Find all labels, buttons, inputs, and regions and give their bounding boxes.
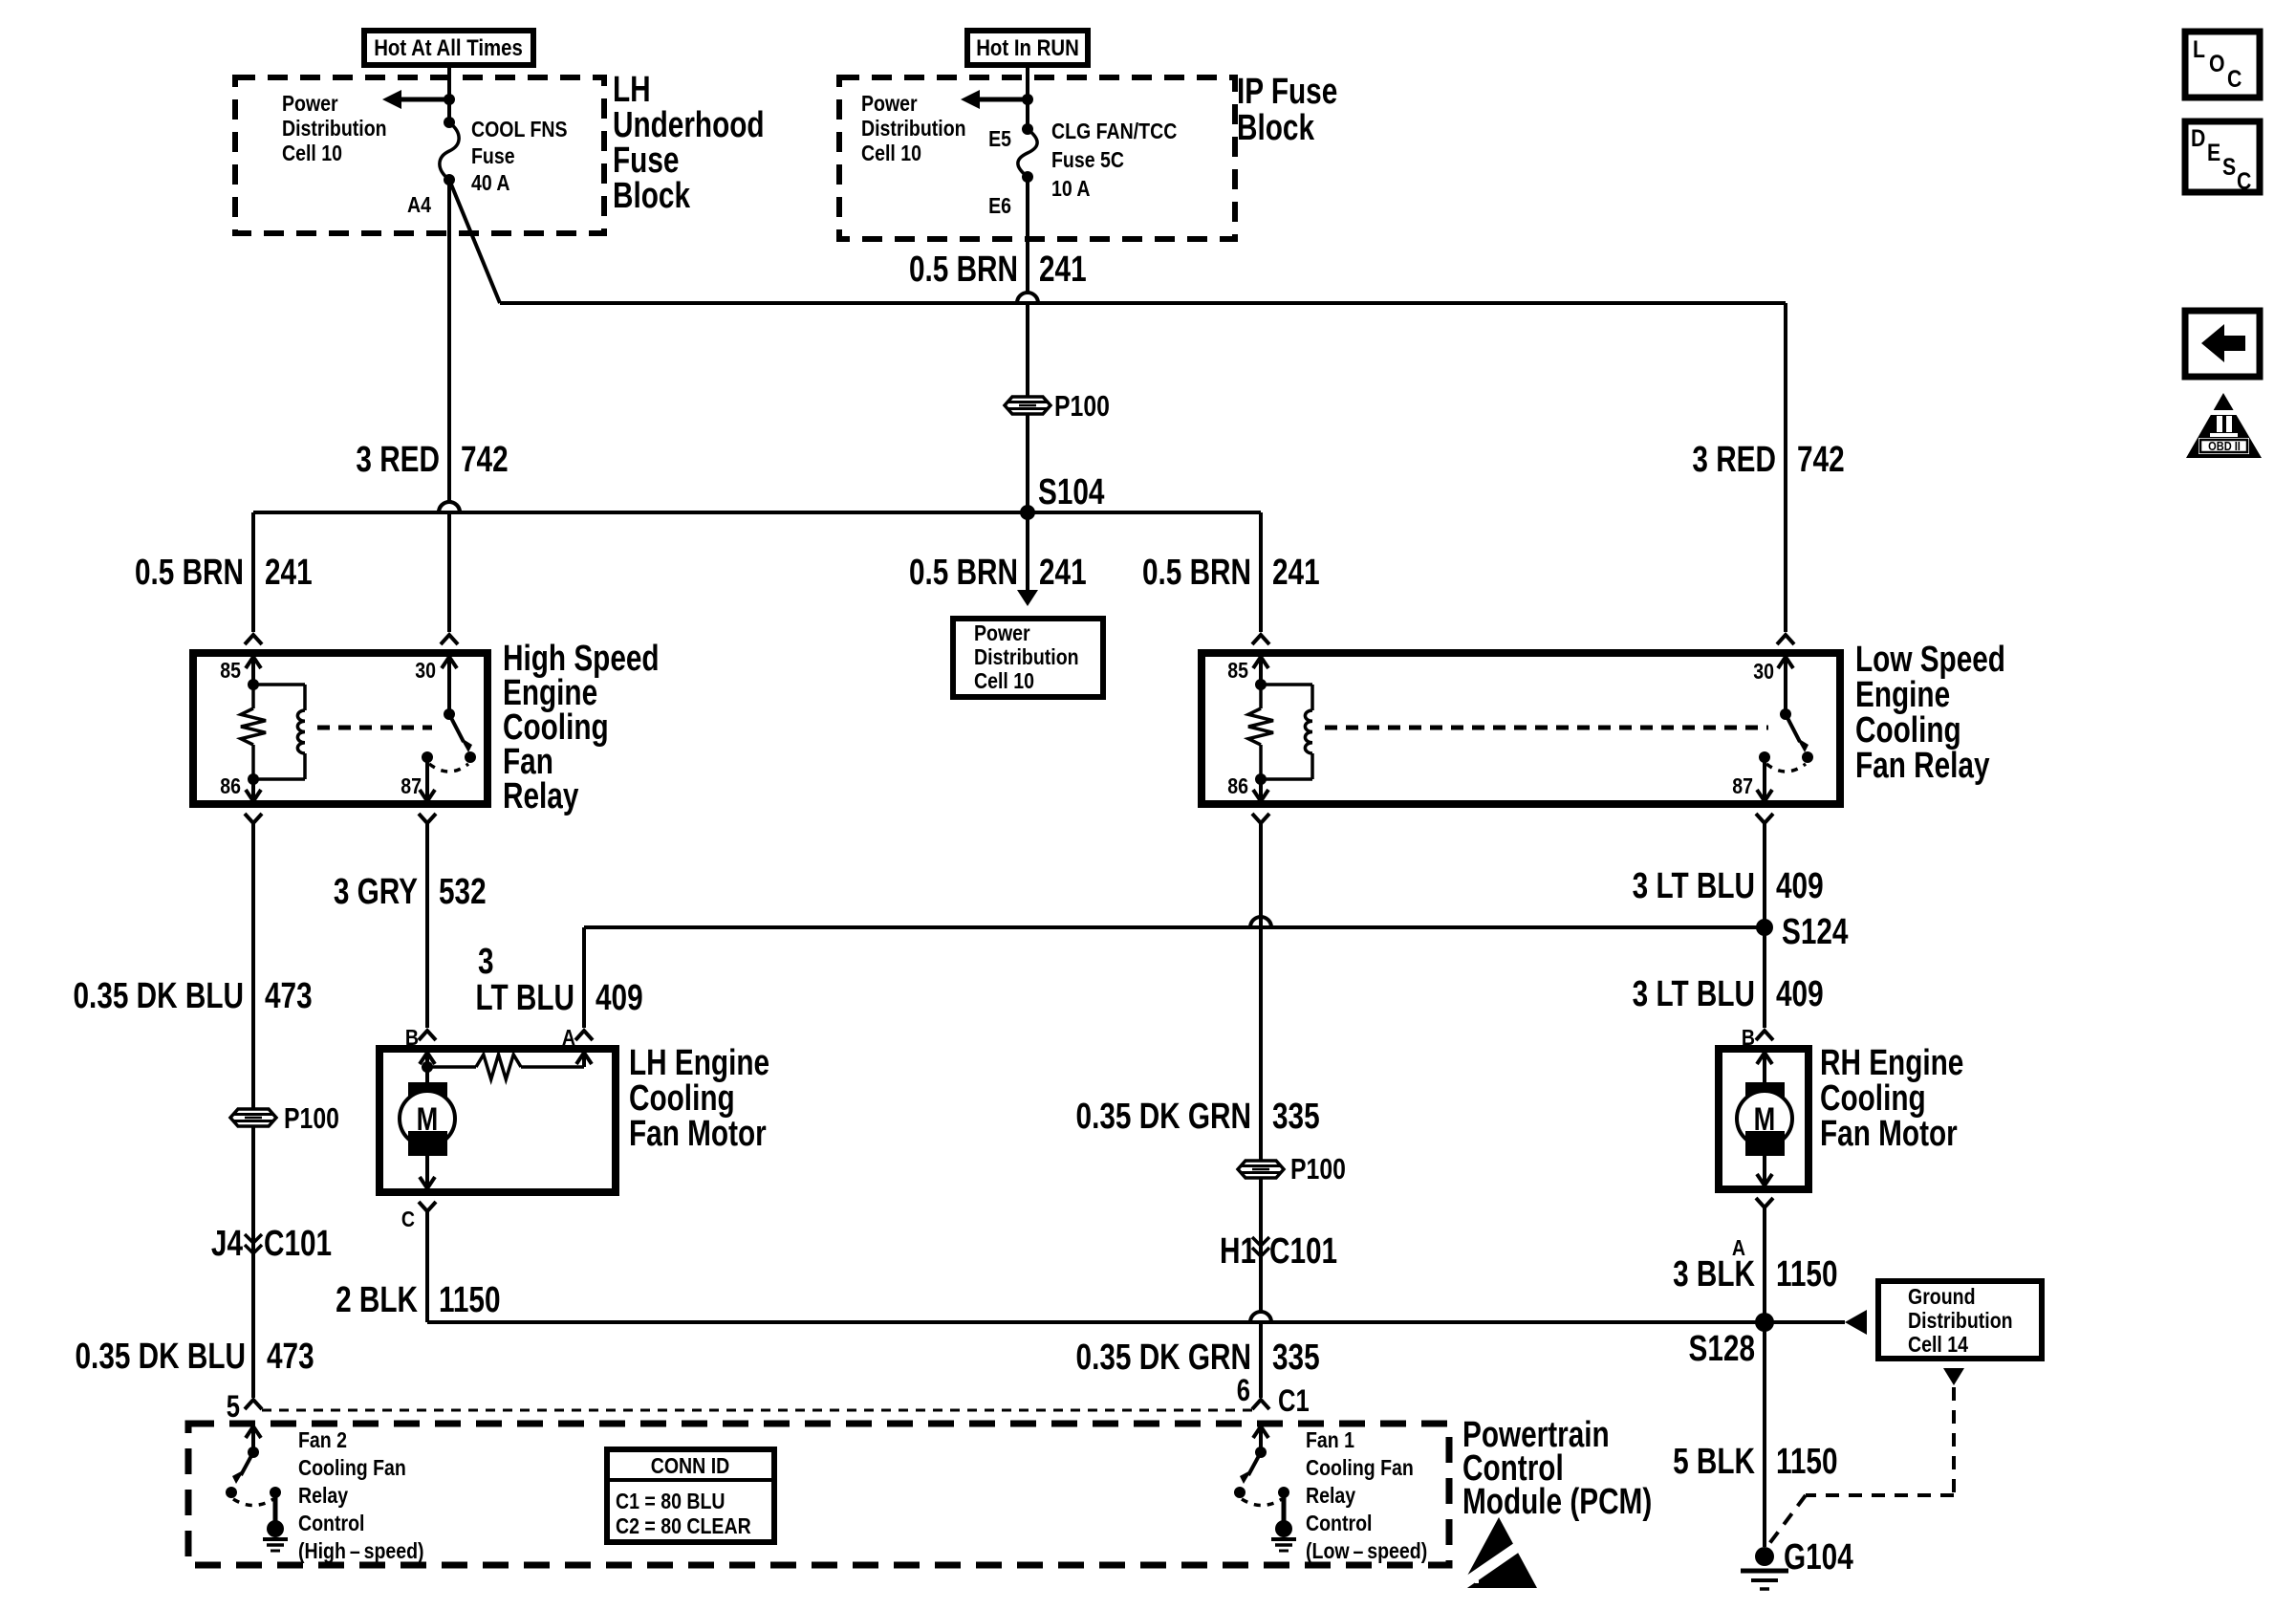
table: CONN ID (607, 1449, 774, 1542)
svg-text:Cooling: Cooling (1820, 1078, 1926, 1119)
svg-text:LT BLU: LT BLU (475, 978, 574, 1018)
HS relay switch pivot (444, 708, 455, 720)
svg-text:(Low – speed): (Low – speed) (1306, 1539, 1427, 1564)
LH underhood fuse block dashed outline (235, 77, 604, 233)
HS relay switch travel dashed arc (429, 764, 468, 772)
svg-text:C1 = 80 BLU: C1 = 80 BLU (616, 1490, 726, 1514)
LS relay pin 30 arrowhead (1778, 657, 1793, 668)
svg-text:30: 30 (415, 659, 436, 684)
svg-text:Cell 10: Cell 10 (974, 669, 1034, 694)
connector Y below HS relay pin 86 (245, 814, 262, 823)
svg-text:C: C (2237, 167, 2252, 194)
inline connector P100 (0.35 DK BLU) (230, 1109, 276, 1126)
wire: Hot In RUN feed down into IP fuse block (1026, 65, 1029, 129)
svg-text:10 A: 10 A (1051, 177, 1091, 202)
svg-text:Power: Power (974, 621, 1030, 646)
icon: OBD II triangle (2186, 393, 2262, 458)
wire: 5 BLK 1150 from S128 down to G104 (1763, 1322, 1766, 1547)
svg-text:85: 85 (220, 659, 241, 684)
svg-text:Relay: Relay (1306, 1484, 1355, 1509)
arrow to Power Distribution (IP fuse block) (979, 98, 1028, 102)
resistor in HS relay coil circuit (251, 685, 255, 708)
svg-text:OBD II: OBD II (2208, 439, 2241, 453)
relay K-HS: High Speed Engine Cooling Fan Relay box (193, 653, 487, 804)
svg-text:P100: P100 (284, 1101, 339, 1134)
svg-text:Fan Relay: Fan Relay (1855, 746, 1990, 786)
LH motor pin C arrow (420, 1177, 435, 1188)
svg-text:3 LT BLU: 3 LT BLU (1633, 974, 1755, 1014)
HS relay actuation dashed link (317, 726, 432, 730)
connector chevron above LH motor pin A (575, 1031, 593, 1040)
svg-text:E6: E6 (988, 194, 1011, 219)
svg-text:Relay: Relay (298, 1484, 348, 1509)
PCM Fan 2 switch travel dashed arc (233, 1499, 273, 1506)
wire: diagonal from fuse A4 to horizontal 3 RED 742 run (449, 180, 500, 303)
svg-text:87: 87 (1732, 774, 1753, 799)
connector chevron above HS relay pin 85 (245, 635, 262, 644)
svg-text:3 RED: 3 RED (356, 440, 440, 480)
svg-text:Fuse 5C: Fuse 5C (1051, 148, 1124, 173)
svg-text:5: 5 (227, 1390, 240, 1424)
inline connector P100 (0.5 BRN) (1005, 397, 1051, 414)
svg-text:H1: H1 (1220, 1231, 1256, 1272)
connector chevron above RH motor pin B (1756, 1031, 1773, 1040)
connector chevron above HS relay pin 30 (441, 635, 458, 644)
svg-text:Hot In RUN: Hot In RUN (976, 34, 1079, 60)
svg-text:335: 335 (1272, 1097, 1320, 1137)
resistor inside LH motor (two-speed) (427, 1065, 476, 1069)
svg-text:O: O (2209, 50, 2225, 76)
svg-text:C101: C101 (1269, 1231, 1337, 1272)
LS relay switch arm (1786, 714, 1800, 742)
svg-text:5 BLK: 5 BLK (1673, 1442, 1755, 1482)
junction box label: Hot At All Times (364, 31, 533, 65)
svg-text:6: 6 (1237, 1374, 1250, 1407)
svg-text:Cell 10: Cell 10 (861, 141, 921, 166)
svg-text:86: 86 (220, 774, 241, 799)
svg-text:Distribution: Distribution (282, 117, 387, 141)
connector chevron above LS relay pin 30 (1777, 635, 1794, 644)
box: Power Distribution Cell 10 (953, 619, 1103, 697)
svg-text:0.35 DK BLU: 0.35 DK BLU (76, 1337, 246, 1377)
LH motor pin A arrow (576, 1053, 592, 1064)
HS relay pin 85 terminal arrow (246, 657, 261, 668)
svg-text:0.5 BRN: 0.5 BRN (135, 553, 244, 593)
svg-text:(High – speed): (High – speed) (298, 1539, 424, 1564)
icon: DESC box (2185, 121, 2260, 192)
svg-text:Block: Block (1237, 108, 1314, 148)
svg-text:Distribution: Distribution (1908, 1309, 2013, 1334)
connector Y below RH motor pin A (1756, 1198, 1773, 1207)
svg-text:0.35 DK BLU: 0.35 DK BLU (74, 976, 244, 1016)
svg-text:Fan Motor: Fan Motor (1820, 1114, 1958, 1154)
module PCM dashed outline (188, 1424, 1449, 1565)
svg-text:Underhood: Underhood (613, 105, 765, 145)
svg-text:LH: LH (613, 70, 651, 110)
resistor in LS relay coil circuit (1259, 685, 1263, 708)
svg-text:S128: S128 (1689, 1329, 1755, 1369)
svg-text:CLG FAN/TCC: CLG FAN/TCC (1051, 120, 1177, 144)
coil in HS relay (253, 683, 305, 686)
wire: 2 BLK 1150 from LH motor pin C to splice S128 (425, 1211, 429, 1322)
svg-text:Engine: Engine (1855, 675, 1950, 715)
svg-text:40 A: 40 A (471, 171, 510, 196)
motor M-RH: RH Engine Cooling Fan Motor box (1719, 1049, 1809, 1189)
svg-text:1150: 1150 (1776, 1442, 1838, 1482)
icon: back-arrow box (2185, 311, 2260, 377)
icon: LOC box (2185, 32, 2260, 98)
svg-text:Cooling: Cooling (629, 1078, 735, 1119)
RH motor pin B arrow (1757, 1053, 1772, 1064)
wire: 3 RED 742 vertical down to Low Speed relay pin 30 (1784, 303, 1787, 632)
svg-text:Cell 14: Cell 14 (1908, 1333, 1968, 1358)
IP fuse block dashed outline (839, 77, 1235, 239)
svg-text:Power: Power (861, 92, 918, 117)
svg-text:S104: S104 (1038, 472, 1104, 512)
svg-text:86: 86 (1227, 774, 1248, 799)
connector chevron PCM pin 5 (245, 1400, 262, 1409)
PCM Fan 2 switch arm (241, 1452, 253, 1475)
svg-text:0.5 BRN: 0.5 BRN (1142, 553, 1251, 593)
inline connector P100 (0.35 DK GRN) (1238, 1161, 1284, 1178)
wire: 0.35 DK BLU 473 from HS relay 86 to PCM pin 5 (251, 823, 255, 1398)
svg-text:E: E (2207, 139, 2220, 165)
PCM Fan 2 driver feed arrow (246, 1426, 261, 1438)
fuse F: CLG FAN/TCC Fuse 5C 10 A element (1018, 129, 1037, 177)
svg-text:LH Engine: LH Engine (629, 1043, 769, 1083)
connector Y below HS relay pin 87 (419, 814, 436, 823)
svg-text:241: 241 (265, 553, 313, 593)
wire: 3 BLK 1150 from RH motor pin A to splice S128 (1763, 1207, 1766, 1322)
svg-text:CONN ID: CONN ID (651, 1454, 729, 1479)
PCM Fan 1 switch contact left (1234, 1487, 1245, 1498)
PCM C1 connector dashed boundary (262, 1409, 1252, 1412)
svg-text:409: 409 (596, 978, 643, 1018)
fuse F: COOL FNS Fuse 40 A element (440, 122, 459, 180)
svg-text:Distribution: Distribution (861, 117, 966, 141)
svg-text:335: 335 (1272, 1338, 1320, 1378)
svg-text:0.5 BRN: 0.5 BRN (909, 250, 1018, 290)
svg-text:742: 742 (461, 440, 509, 480)
svg-text:A4: A4 (407, 193, 431, 218)
svg-text:0.35 DK GRN: 0.35 DK GRN (1076, 1097, 1251, 1137)
LS relay switch travel dashed arc (1766, 764, 1806, 772)
svg-text:3: 3 (478, 942, 494, 982)
svg-text:241: 241 (1272, 553, 1320, 593)
PCM Fan 2 switch contact right (270, 1487, 281, 1498)
svg-text:S124: S124 (1782, 912, 1848, 952)
svg-text:473: 473 (267, 1337, 314, 1377)
connector chevron above LH motor pin B (419, 1031, 436, 1040)
HS relay pin 87 terminal arrow (420, 790, 435, 801)
LS relay pin 85 terminal arrow (1253, 657, 1268, 668)
svg-text:Cooling Fan: Cooling Fan (1306, 1456, 1414, 1481)
svg-text:Low Speed: Low Speed (1855, 640, 2005, 680)
connector Y below LH motor pin C (419, 1202, 436, 1211)
LS relay pin 87 terminal arrow (1757, 790, 1772, 801)
svg-text:3 RED: 3 RED (1692, 440, 1776, 480)
wire: horizontal 3 RED 742 run to right side (500, 301, 1786, 305)
svg-text:P100: P100 (1290, 1152, 1346, 1185)
svg-text:P100: P100 (1054, 389, 1110, 422)
svg-text:3 LT BLU: 3 LT BLU (1633, 866, 1755, 906)
svg-text:409: 409 (1776, 866, 1824, 906)
HS relay switch arm (449, 714, 464, 742)
splice S124 (1756, 919, 1773, 936)
svg-text:S: S (2222, 153, 2236, 180)
svg-text:742: 742 (1797, 440, 1845, 480)
dashed ground reference path with arrow (1943, 1368, 1964, 1385)
svg-text:532: 532 (439, 872, 487, 912)
svg-text:473: 473 (265, 976, 313, 1016)
LS relay pin 86 terminal arrow (1253, 790, 1268, 801)
splice S128 (1755, 1313, 1774, 1332)
svg-text:C1: C1 (1278, 1384, 1310, 1418)
svg-text:Cooling: Cooling (1855, 710, 1961, 751)
svg-text:409: 409 (1776, 974, 1824, 1014)
connector Y below LS relay pin 86 (1252, 814, 1269, 823)
svg-text:87: 87 (401, 774, 422, 799)
junction box label: Hot In RUN (967, 31, 1088, 65)
svg-text:C101: C101 (264, 1224, 332, 1264)
HS relay pin 30 arrowhead (442, 657, 457, 668)
svg-text:Power: Power (282, 92, 338, 117)
motor M-LH: LH Engine Cooling Fan Motor box (379, 1049, 616, 1192)
PCM Fan 2 internal ground (273, 1492, 278, 1524)
connector chevron PCM pin 6 (1252, 1400, 1269, 1409)
svg-text:C: C (2227, 65, 2242, 92)
svg-text:Fuse: Fuse (471, 144, 515, 169)
svg-text:J4: J4 (211, 1224, 243, 1264)
svg-text:L: L (2193, 35, 2205, 62)
wire: 0.5 BRN 241 from IP fuse E6 down (hops 3 RED run) to S104 (1026, 177, 1029, 293)
svg-text:2 BLK: 2 BLK (336, 1280, 418, 1320)
svg-text:Fuse: Fuse (613, 141, 679, 181)
wire: 3 GRY 532 from HS relay 87 to LH motor pin B (425, 823, 429, 1028)
svg-text:Fan 2: Fan 2 (298, 1428, 347, 1453)
PCM Fan 2 switch pivot (248, 1447, 259, 1458)
svg-text:C2 = 80 CLEAR: C2 = 80 CLEAR (616, 1514, 751, 1539)
PCM Fan 1 switch arm (1248, 1452, 1261, 1475)
ground G104 (1755, 1547, 1774, 1566)
PCM Fan 1 internal ground (1282, 1492, 1287, 1524)
svg-text:0.35 DK GRN: 0.35 DK GRN (1076, 1338, 1251, 1378)
LS relay switch contact (normally open) (1802, 751, 1813, 763)
svg-text:Relay: Relay (503, 776, 578, 816)
svg-text:1150: 1150 (1776, 1254, 1838, 1295)
svg-text:E5: E5 (988, 127, 1011, 152)
svg-text:1150: 1150 (439, 1280, 501, 1320)
arrow to Ground Distribution cell (1845, 1310, 1867, 1335)
connector chevron above LS relay pin 85 (1252, 635, 1269, 644)
arrow to Power Distribution (LH fuse block) (401, 98, 449, 102)
PCM Fan 1 switch travel dashed arc (1242, 1499, 1282, 1506)
wire: Hot At All Times feed down into LH underhood fuse block (447, 65, 451, 122)
HS relay pin 86 terminal arrow (246, 790, 261, 801)
LS relay pin 87 contact (1759, 751, 1770, 763)
svg-text:IP Fuse: IP Fuse (1237, 72, 1337, 112)
svg-text:Control: Control (1306, 1512, 1372, 1536)
LS relay actuation dashed link (1325, 726, 1768, 730)
HS relay pin 30 feed (447, 657, 451, 714)
connector J4 C101 (245, 1234, 262, 1243)
wire: 3 LT BLU 409 from LS relay 87 down to RH motor pin B (1763, 823, 1766, 1028)
wire: 3 RED 742 vertical from A4 down to High Speed relay pin 30 (hops 0.5 BRN run) (447, 180, 451, 502)
connector H1 C101 (1252, 1237, 1269, 1246)
wire: 0.5 BRN 241 left drop to High Speed relay pin 85 (251, 512, 255, 632)
relay K-LS: Low Speed Engine Cooling Fan Relay box (1202, 653, 1840, 804)
svg-text:3 BLK: 3 BLK (1673, 1254, 1755, 1295)
svg-text:C: C (401, 1207, 415, 1232)
svg-text:G104: G104 (1784, 1537, 1853, 1577)
arrow into Power Distribution cell box (1026, 512, 1029, 591)
svg-text:Module (PCM): Module (PCM) (1462, 1482, 1652, 1522)
coil in LS relay (1261, 683, 1312, 686)
wire: 3 LT BLU 409 branch from S124 to LH motor pin A (582, 927, 586, 1028)
svg-text:Distribution: Distribution (974, 645, 1079, 670)
ESD sensitivity symbol (1461, 1517, 1537, 1588)
box: Ground Distribution Cell 14 (1878, 1281, 2042, 1359)
svg-text:0.5 BRN: 0.5 BRN (909, 553, 1018, 593)
PCM Fan 2 switch contact left (226, 1487, 237, 1498)
svg-text:Cell 10: Cell 10 (282, 141, 342, 166)
PCM Fan 1 switch contact right (1278, 1487, 1289, 1498)
connector Y below LS relay pin 87 (1756, 814, 1773, 823)
RH motor armature symbol (1745, 1082, 1785, 1106)
LS relay switch pivot (1780, 708, 1791, 720)
svg-text:COOL FNS: COOL FNS (471, 118, 568, 142)
svg-text:D: D (2191, 124, 2205, 151)
HS relay switch contact (normally open) (465, 751, 476, 763)
svg-text:RH Engine: RH Engine (1820, 1043, 1963, 1083)
svg-text:Hot At All Times: Hot At All Times (374, 34, 523, 60)
svg-text:Fan Motor: Fan Motor (629, 1114, 767, 1154)
svg-text:Ground: Ground (1908, 1285, 1976, 1310)
svg-text:241: 241 (1039, 250, 1087, 290)
RH motor pin A arrow (1757, 1174, 1772, 1186)
svg-text:30: 30 (1753, 660, 1774, 685)
svg-text:241: 241 (1039, 553, 1087, 593)
svg-text:Block: Block (613, 176, 690, 216)
LS relay pin 30 feed (1784, 657, 1787, 714)
PCM Fan 1 driver feed arrow (1253, 1426, 1268, 1438)
wire: 0.5 BRN 241 horizontal distribution run (253, 511, 1261, 514)
LH motor pin B arrow (420, 1053, 435, 1064)
wire: 0.5 BRN 241 right drop to Low Speed relay pin 85 (1259, 512, 1263, 632)
LH motor armature symbol (408, 1082, 447, 1106)
svg-text:Cooling Fan: Cooling Fan (298, 1456, 406, 1481)
PCM Fan 1 switch pivot (1255, 1447, 1267, 1458)
HS relay pin 87 contact (422, 751, 433, 763)
svg-text:85: 85 (1227, 659, 1248, 684)
svg-text:3 GRY: 3 GRY (334, 872, 418, 912)
splice S104 (1020, 505, 1035, 520)
svg-text:Fan 1: Fan 1 (1306, 1428, 1354, 1453)
wire: 0.35 DK GRN 335 from LS relay 86 down to PCM pin 6 (1259, 823, 1263, 1312)
svg-text:Control: Control (298, 1512, 364, 1536)
